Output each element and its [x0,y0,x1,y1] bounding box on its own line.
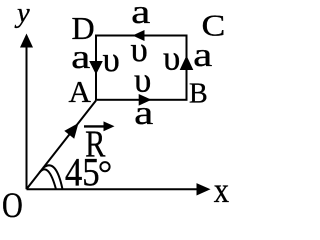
svg-text:45: 45 [65,151,100,195]
radius vector line from O to A [27,101,96,189]
svg-text:a: a [193,36,212,74]
svg-text:a: a [131,0,150,31]
svg-text:O: O [2,186,23,219]
radius vector arrowhead [64,123,78,139]
svg-text:υ: υ [134,61,151,100]
svg-text:A: A [69,74,92,109]
x-axis arrowhead [197,183,211,195]
velocity arrowhead on top side DC (points left) [133,30,145,41]
svg-text:a: a [71,38,90,76]
svg-text:υ: υ [163,39,180,78]
svg-text:υ: υ [103,40,120,79]
velocity arrowhead on right side CB (points up) [180,56,194,71]
svg-text:x: x [214,171,230,211]
velocity arrowhead on bottom side AB (points right) [139,94,152,106]
y-axis [26,45,28,189]
svg-text:B: B [189,78,208,109]
y-axis arrowhead [20,34,33,48]
angle arc inner [40,169,57,189]
angle arc outer [43,165,62,189]
R vector arrow (over R) [84,125,106,127]
svg-text:a: a [134,94,153,132]
svg-text:y: y [14,0,30,29]
velocity arrowhead on left side DA (points down) [89,61,103,75]
square ABCD [96,36,187,100]
x-axis [27,188,199,190]
